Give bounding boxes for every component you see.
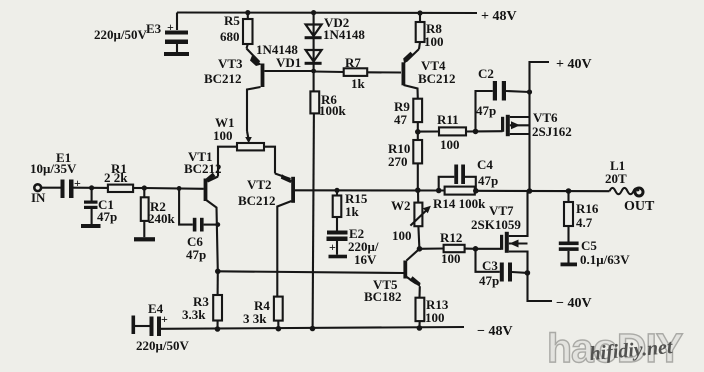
- svg-text:VT3: VT3: [218, 56, 243, 71]
- wire IN to E1: [41, 187, 60, 189]
- diode VD1 1N4148: [306, 50, 322, 62]
- resistor R16: [567, 191, 569, 202]
- node R14 left / C4: [436, 188, 442, 194]
- potentiometer W1 wiper arrow: [247, 131, 249, 139]
- wire VT3 base to node: [265, 70, 314, 72]
- terminal IN: [34, 184, 41, 191]
- junction R6 rail: [310, 326, 316, 332]
- ground E3: [164, 52, 189, 56]
- wire VT2 base line: [295, 189, 439, 191]
- svg-text:100: 100: [441, 251, 461, 266]
- resistor R2: [143, 188, 145, 197]
- svg-text:VT2: VT2: [247, 177, 272, 192]
- junction R3 rail: [215, 326, 221, 332]
- svg-text:BC212: BC212: [184, 161, 222, 176]
- svg-text:R12: R12: [440, 230, 462, 245]
- resistor R1: [108, 185, 133, 192]
- svg-text:240k: 240k: [148, 211, 176, 226]
- svg-text:− 48V: − 48V: [477, 324, 513, 339]
- svg-text:220μ/50V: 220μ/50V: [94, 27, 147, 42]
- svg-text:4.7: 4.7: [576, 215, 593, 230]
- svg-text:+: +: [329, 240, 336, 254]
- mosfet VT6 2SJ162: [476, 130, 503, 132]
- svg-text:1N4148: 1N4148: [323, 27, 365, 42]
- wire output line: [476, 190, 610, 192]
- svg-text:47p: 47p: [97, 209, 117, 224]
- resistor R6: [310, 91, 319, 113]
- svg-text:100: 100: [213, 128, 233, 143]
- svg-text:47: 47: [394, 112, 408, 127]
- svg-text:3 3k: 3 3k: [243, 311, 267, 326]
- svg-text:BC212: BC212: [238, 193, 276, 208]
- svg-text:0.1μ/63V: 0.1μ/63V: [580, 252, 630, 267]
- transistor VT2 BC212: [275, 174, 291, 180]
- svg-text:E3: E3: [146, 21, 162, 36]
- wire VT1 collector line to VT5 base: [218, 271, 404, 273]
- ground E2: [329, 255, 348, 259]
- resistor R3: [217, 271, 219, 295]
- ground R2: [134, 237, 155, 241]
- junction R4 rail: [276, 326, 282, 332]
- svg-text:R14 100k: R14 100k: [433, 196, 486, 211]
- resistor R13: [416, 298, 425, 321]
- svg-text:220μ/50V: 220μ/50V: [136, 338, 189, 353]
- capacitor E1: [61, 180, 65, 199]
- capacitor C5: [559, 242, 579, 246]
- svg-text:C4: C4: [477, 157, 493, 172]
- node VT1 collector / R3: [215, 269, 221, 275]
- junction R13 rail: [417, 325, 423, 331]
- capacitor E2: [327, 231, 348, 235]
- svg-text:R16: R16: [576, 201, 599, 216]
- svg-text:OUT: OUT: [624, 199, 655, 214]
- svg-text:47p: 47p: [476, 103, 496, 118]
- wire E1 to node: [74, 187, 108, 189]
- node R16: [566, 188, 572, 194]
- resistor R9: [413, 99, 422, 122]
- transistor VT5 BC182: [407, 249, 420, 261]
- svg-text:100: 100: [425, 310, 445, 325]
- svg-text:2SK1059: 2SK1059: [471, 217, 521, 232]
- svg-text:IN: IN: [31, 190, 46, 205]
- svg-text:C5: C5: [581, 238, 597, 253]
- wire +40V branch: [530, 62, 550, 191]
- svg-text:VD1: VD1: [276, 55, 301, 70]
- node R1/R2: [142, 185, 147, 190]
- svg-text:E4: E4: [148, 301, 164, 316]
- node R14 right: [473, 188, 479, 194]
- svg-text:+: +: [167, 20, 174, 34]
- capacitor C6: [179, 188, 193, 224]
- node R15: [334, 188, 339, 193]
- wire -48V bottom rail: [161, 327, 464, 329]
- resistor R4: [274, 297, 283, 321]
- node VT5 collector / W2 / R12: [417, 246, 423, 252]
- node R8 rail: [417, 10, 422, 15]
- node R11 right / VT6 gate: [473, 129, 479, 135]
- svg-text:BC212: BC212: [418, 71, 456, 86]
- svg-text:16V: 16V: [354, 252, 377, 267]
- capacitor C3: [476, 249, 500, 272]
- node R10 / W2 on base line: [415, 187, 421, 193]
- node C1: [89, 185, 94, 190]
- transistor VT1 BC212: [208, 177, 219, 182]
- svg-text:BC182: BC182: [364, 289, 402, 304]
- inductor L1 20T: [610, 188, 639, 194]
- resistor R5: [247, 13, 249, 20]
- terminal OUT: [635, 188, 643, 196]
- svg-text:− 40V: − 40V: [556, 296, 592, 311]
- svg-text:47p: 47p: [186, 247, 206, 262]
- svg-text:VT6: VT6: [533, 110, 558, 125]
- wire top +48V rail: [177, 11, 477, 14]
- ground C1: [81, 224, 101, 228]
- resistor R8: [419, 13, 421, 22]
- resistor R11: [418, 130, 439, 132]
- capacitor E3: [176, 13, 178, 31]
- wire R6 to -48V rail: [313, 113, 314, 328]
- svg-text:C2: C2: [478, 66, 494, 81]
- resistor R7: [314, 70, 344, 73]
- svg-text:10μ/35V: 10μ/35V: [30, 161, 77, 176]
- node top rail R5: [245, 10, 250, 15]
- svg-text:+ 48V: + 48V: [481, 9, 517, 24]
- resistor R10: [417, 132, 419, 140]
- potentiometer W1: [237, 143, 264, 150]
- node top rail diodes: [311, 10, 316, 15]
- svg-text:100k: 100k: [319, 103, 347, 118]
- svg-text:C3: C3: [482, 258, 498, 273]
- svg-text:100: 100: [392, 228, 412, 243]
- svg-text:W2: W2: [391, 198, 411, 213]
- svg-text:BC212: BC212: [204, 71, 242, 86]
- svg-text:R11: R11: [437, 112, 459, 127]
- transistor VT3 BC212: [247, 49, 260, 63]
- svg-text:1k: 1k: [351, 76, 366, 91]
- svg-text:100: 100: [424, 34, 444, 49]
- svg-text:680: 680: [220, 29, 240, 44]
- svg-text:47p: 47p: [479, 273, 499, 288]
- svg-text:3.3k: 3.3k: [182, 307, 206, 322]
- node C2 right: [527, 89, 532, 94]
- transistor VT4 BC212: [406, 49, 419, 62]
- capacitor E4: [132, 316, 136, 335]
- svg-text:100: 100: [440, 137, 460, 152]
- svg-text:2 2k: 2 2k: [104, 170, 128, 185]
- capacitor C2: [476, 91, 493, 131]
- svg-text:VT7: VT7: [489, 203, 514, 218]
- resistor R15: [336, 190, 338, 195]
- svg-text:270: 270: [388, 154, 408, 169]
- capacitor C1: [91, 188, 93, 201]
- resistor R12: [420, 247, 444, 249]
- svg-text:+ 40V: + 40V: [556, 57, 592, 72]
- mosfet VT7 2SK1059: [476, 248, 502, 250]
- wire W1 right to VT2 emitter: [264, 147, 275, 174]
- node VD1/R6/R7/VT3 base: [311, 69, 316, 74]
- svg-text:47p: 47p: [478, 173, 498, 188]
- node C6 top: [177, 186, 182, 191]
- node output / VT6 source: [527, 188, 533, 194]
- node R12 right / VT7 gate / C3: [473, 246, 479, 252]
- svg-text:R5: R5: [224, 13, 240, 28]
- svg-text:1k: 1k: [345, 204, 360, 219]
- diode VD2 1N4148: [313, 13, 315, 38]
- resistor R14: [445, 187, 475, 195]
- potentiometer W2: [417, 190, 419, 202]
- wire W1 left to VT1 emitter: [218, 147, 237, 177]
- svg-text:2SJ162: 2SJ162: [532, 124, 572, 139]
- wire R1 node to VT1 base: [144, 187, 203, 190]
- ground C5: [561, 263, 578, 267]
- node R9/R10/R11: [415, 129, 421, 135]
- svg-text:20T: 20T: [605, 171, 627, 186]
- capacitor C4: [439, 177, 455, 191]
- svg-text:R7: R7: [345, 55, 361, 70]
